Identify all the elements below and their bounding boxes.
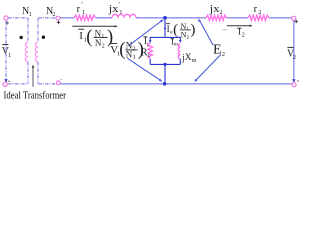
wire r2 to terminal T2+ xyxy=(269,17,292,19)
plus sign at T1+ xyxy=(5,22,9,24)
inductor jXm xyxy=(178,44,180,59)
svg-text:2: 2 xyxy=(242,32,245,39)
svg-text:X: X xyxy=(185,53,192,63)
inductor jx2 xyxy=(206,15,227,20)
label Ie(N1/N2) xyxy=(166,23,170,25)
svg-text:2: 2 xyxy=(219,9,222,16)
terminal b (bottom-mid) xyxy=(56,81,60,85)
label V1 (source voltage) xyxy=(2,44,8,46)
wire jx1' to node m xyxy=(136,17,206,19)
wire secondary bottom xyxy=(39,83,56,85)
svg-text:2: 2 xyxy=(52,11,55,18)
current arrow I1(N1/N2) xyxy=(72,25,115,27)
transformer secondary winding N2 xyxy=(37,18,39,43)
arrowhead exciting current xyxy=(164,28,167,31)
wire jx2 to r2 xyxy=(227,17,249,19)
svg-text:): ) xyxy=(138,40,144,60)
svg-text:1: 1 xyxy=(101,34,104,40)
label I2 xyxy=(237,27,241,29)
svg-text:m: m xyxy=(174,42,179,48)
svg-text:1: 1 xyxy=(133,55,136,61)
wire left vertical (V1 source) xyxy=(5,21,7,79)
svg-text:2: 2 xyxy=(222,51,225,58)
svg-text:2: 2 xyxy=(132,46,135,52)
svg-text:1: 1 xyxy=(82,9,85,16)
svg-text:2: 2 xyxy=(293,54,296,61)
minus sign at T1- xyxy=(8,80,10,82)
svg-text:m: m xyxy=(192,58,197,64)
svg-text:r: r xyxy=(254,4,258,15)
terminal T1- (bottom-left) xyxy=(3,82,7,86)
svg-text:1: 1 xyxy=(119,9,122,16)
arrowhead into bottom-right terminal xyxy=(292,79,295,83)
label V1(N2/N1) xyxy=(111,43,117,45)
wire node to shunt bar xyxy=(164,19,166,37)
terminal T1+ (top-left) xyxy=(4,16,8,20)
svg-text:I: I xyxy=(167,24,170,34)
polarity dot primary xyxy=(20,36,23,39)
wire top-left (V1 to primary) xyxy=(8,17,27,19)
resistor r1' xyxy=(74,15,96,20)
wire shunt to bottom rail xyxy=(164,64,166,83)
plus sign at terminal a xyxy=(57,21,61,23)
arrow E2 upper xyxy=(200,21,213,45)
wire r1' to jx1' xyxy=(96,17,113,19)
svg-text:N: N xyxy=(95,29,102,39)
left leg arrow xyxy=(149,37,151,40)
svg-text:2: 2 xyxy=(258,9,261,16)
svg-text:(: ( xyxy=(173,22,178,38)
arrow V1(N2/N1) upper xyxy=(129,21,162,46)
transformer primary winding N1 xyxy=(27,18,29,43)
flux arrow between windings xyxy=(32,67,34,87)
node m (top junction) xyxy=(163,16,167,20)
arrow V1(N2/N1) lower xyxy=(128,58,161,80)
terminal T2- (bottom-right) xyxy=(292,83,296,87)
svg-text:(: ( xyxy=(86,27,92,47)
wire top a to r1' xyxy=(60,17,74,19)
inductor jx1' xyxy=(112,14,136,17)
plus sign at T2+ xyxy=(294,20,298,22)
label V2 (output voltage) xyxy=(287,46,293,48)
svg-text:(: ( xyxy=(119,40,125,60)
minus sign at T2- xyxy=(297,80,299,82)
svg-text:1: 1 xyxy=(8,52,11,59)
svg-text:r: r xyxy=(77,4,81,15)
svg-text:1: 1 xyxy=(29,11,32,18)
node n (bottom junction) xyxy=(163,82,167,86)
svg-text:c: c xyxy=(148,53,151,59)
terminal T2+ (top-right) xyxy=(292,16,296,20)
svg-text:I: I xyxy=(79,30,83,42)
wire right vertical (V2) xyxy=(293,21,295,79)
resistor Rc' xyxy=(148,43,153,58)
right leg arrow xyxy=(179,37,181,40)
shunt bottom stubs and bar xyxy=(149,59,151,65)
terminal a (top-mid) xyxy=(56,16,60,20)
wire bottom rail xyxy=(60,83,291,85)
current arrow I2 xyxy=(227,25,250,27)
svg-text:): ) xyxy=(190,22,195,38)
svg-text:2: 2 xyxy=(102,44,105,50)
label Im xyxy=(171,38,174,40)
wire bottom-left xyxy=(8,83,27,85)
svg-text:N: N xyxy=(95,39,102,49)
label I1(N1/N2) xyxy=(78,28,84,30)
polarity dot secondary xyxy=(42,36,45,39)
svg-text:Ideal Transformer: Ideal Transformer xyxy=(4,90,67,101)
arrow E2 lower xyxy=(196,55,221,81)
resistor r2 xyxy=(248,15,269,20)
shunt top bar xyxy=(150,36,181,38)
arrowhead into bottom-left terminal xyxy=(4,79,7,83)
label Ic xyxy=(143,36,147,38)
wire secondary top xyxy=(39,17,56,19)
